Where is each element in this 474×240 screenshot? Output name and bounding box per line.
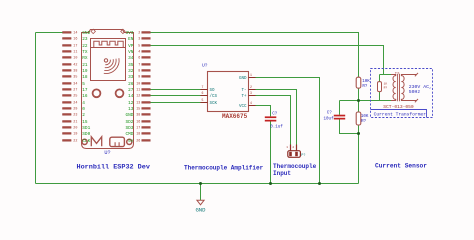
svg-text:18: 18 (136, 133, 140, 137)
svg-text:3V3: 3V3 (125, 31, 133, 36)
svg-text:42: 42 (73, 64, 77, 68)
wire burden resistor bottom (379, 92, 381, 101)
svg-text:11: 11 (136, 89, 140, 93)
svg-text:R?: R? (361, 120, 367, 124)
svg-text:14: 14 (128, 94, 134, 99)
wire ground bus (36, 183, 359, 185)
junction bypass cap on bus (269, 182, 272, 185)
svg-text:VN: VN (128, 50, 134, 55)
wire ESP32 GND pin to left rail (36, 32, 63, 34)
svg-text:5V: 5V (128, 139, 134, 144)
svg-text:12: 12 (136, 95, 140, 99)
svg-text:23: 23 (82, 37, 88, 42)
svg-text:6: 6 (202, 91, 204, 95)
ESP32 button left (93, 89, 101, 97)
svg-text:Input: Input (273, 170, 291, 177)
svg-text:GND: GND (195, 206, 206, 213)
svg-text:P?: P? (301, 154, 305, 158)
svg-text:TX: TX (82, 50, 88, 55)
ground symbol GND (197, 200, 204, 205)
thermocouple connector pin stubs (291, 145, 297, 152)
svg-text:10: 10 (136, 83, 140, 87)
svg-text:21: 21 (73, 121, 77, 125)
svg-text:GND: GND (239, 77, 247, 81)
svg-text:T-: T- (241, 89, 246, 93)
svg-text:34: 34 (128, 56, 134, 61)
wire R2 to bus (358, 125, 360, 184)
svg-text:24: 24 (73, 102, 77, 106)
ESP32 fiducial diamond right (121, 29, 125, 33)
svg-text:2: 2 (250, 85, 252, 89)
svg-text:5: 5 (82, 82, 85, 87)
svg-text:GND: GND (125, 113, 133, 118)
wire filter cap top lead (339, 101, 341, 115)
ESP32 left pin stubs (63, 32, 72, 142)
MAX6675 pin names (210, 77, 247, 109)
resistor R2 10K body (356, 112, 361, 125)
svg-text:0: 0 (82, 107, 85, 112)
wire 3V3 to divider top (151, 33, 359, 78)
wire GND symbol stub (200, 184, 202, 201)
svg-text:3: 3 (138, 38, 140, 42)
svg-text:12: 12 (128, 101, 134, 106)
svg-text:6: 6 (138, 57, 140, 61)
wire bypass cap to bus (270, 121, 272, 184)
svg-text:C?: C? (272, 112, 278, 116)
svg-text:2: 2 (138, 32, 140, 36)
wire R1 to R2 (358, 88, 360, 112)
svg-text:2: 2 (82, 113, 85, 118)
burden resistor body (378, 82, 382, 92)
svg-text:50Hz: 50Hz (409, 89, 421, 95)
svg-text:18: 18 (82, 75, 88, 80)
svg-text:GND: GND (82, 31, 90, 36)
wire divider mid node (340, 100, 392, 102)
svg-text:R?: R? (362, 85, 368, 89)
wire T+ to connector (256, 96, 291, 145)
svg-text:5: 5 (202, 98, 204, 102)
wire GPIO12 to SCK (151, 102, 201, 104)
svg-text:26: 26 (128, 82, 134, 87)
svg-text:T+: T+ (241, 95, 247, 99)
current sensor frame title compartment (371, 110, 427, 118)
svg-text:25: 25 (73, 95, 77, 99)
svg-text:13: 13 (136, 102, 140, 106)
transformer mains lead bottom (406, 99, 418, 102)
junction gnd stub on bus (199, 182, 202, 185)
svg-text:13: 13 (128, 107, 134, 112)
svg-text:14: 14 (73, 32, 77, 36)
wire VP to current transformer (151, 46, 384, 75)
svg-text:26: 26 (136, 140, 140, 144)
svg-text:15: 15 (136, 108, 140, 112)
MAX6675 left pin stubs (201, 90, 208, 103)
svg-text:SCK: SCK (210, 102, 218, 106)
svg-text:7: 7 (138, 64, 140, 68)
svg-text:16: 16 (82, 94, 88, 99)
ESP32 shield module box (91, 39, 126, 81)
ESP32 right pin names (125, 31, 133, 144)
ESP32 antenna meander trace (94, 41, 123, 47)
svg-text:Current Sensor: Current Sensor (375, 162, 427, 169)
svg-text:4: 4 (250, 101, 252, 105)
svg-text:10K: 10K (362, 80, 370, 84)
svg-text:16: 16 (73, 38, 77, 42)
svg-text:SD2: SD2 (125, 120, 133, 125)
svg-text:Thermocouple Amplifier: Thermocouple Amplifier (184, 164, 264, 171)
svg-text:23: 23 (73, 114, 77, 118)
ESP32 right pin numbers (136, 32, 140, 144)
svg-text:/CS: /CS (210, 94, 218, 99)
svg-text:8: 8 (138, 70, 140, 74)
svg-text:CLK: CLK (82, 139, 90, 144)
svg-text:34: 34 (73, 83, 77, 87)
svg-text:SCT-013-050: SCT-013-050 (383, 104, 414, 110)
transformer T1 core (398, 74, 400, 101)
svg-text:0.1uf: 0.1uf (270, 124, 283, 129)
svg-text:SO: SO (210, 89, 216, 93)
ESP32 bottom connector (110, 137, 125, 146)
ESP32 micro-USB connector M shape (91, 137, 101, 146)
svg-text:3: 3 (250, 91, 252, 95)
svg-text:27: 27 (128, 88, 134, 93)
svg-text:22: 22 (82, 44, 88, 49)
svg-text:16: 16 (136, 121, 140, 125)
ESP32 button right (116, 89, 124, 97)
svg-text:11: 11 (73, 51, 77, 55)
svg-text:SD0: SD0 (82, 132, 90, 137)
capacitor C2 10uf plates (334, 115, 345, 120)
svg-text:32: 32 (128, 69, 134, 74)
ESP32 mounting hole bottom-right (127, 139, 132, 144)
wire left rail down (35, 33, 37, 184)
resistor R1 10K body (356, 77, 361, 88)
svg-text:C?: C? (327, 111, 333, 115)
svg-text:10K: 10K (361, 115, 369, 119)
svg-text:4: 4 (138, 51, 140, 55)
MAX6675 left pin numbers (202, 85, 204, 102)
svg-text:EN: EN (128, 37, 134, 42)
current sensor dashed frame (371, 69, 433, 118)
svg-text:Hornbill ESP32 Dev: Hornbill ESP32 Dev (77, 164, 150, 172)
wire filter cap bottom lead (340, 119, 359, 133)
ESP32 left pin names (82, 31, 90, 144)
svg-text:19: 19 (73, 133, 77, 137)
MAX6675 U2 box (208, 72, 249, 112)
svg-text:1: 1 (250, 73, 252, 77)
svg-text:35: 35 (128, 63, 134, 68)
svg-text:10: 10 (73, 57, 77, 61)
ESP32 module U1 board outline (82, 30, 134, 149)
svg-text:4: 4 (82, 101, 85, 106)
svg-text:33: 33 (128, 75, 134, 80)
svg-text:SD3: SD3 (125, 126, 133, 131)
svg-text:27: 27 (73, 89, 77, 93)
ESP32 right pin stubs (142, 32, 151, 142)
transformer mains lead top (406, 73, 418, 76)
thermocouple connector pin numbers (286, 146, 294, 149)
burden resistor labels (384, 82, 388, 89)
svg-text:10uf: 10uf (324, 116, 335, 121)
svg-text:29: 29 (73, 108, 77, 112)
svg-text:21: 21 (82, 63, 88, 68)
thermocouple connector pads (289, 152, 298, 156)
svg-text:7: 7 (202, 85, 204, 89)
wire GPIO27 to SO (151, 89, 201, 91)
wire VCC to bypass cap (256, 106, 271, 117)
svg-text:230V AC,: 230V AC, (409, 84, 432, 90)
ESP32 fiducial diamond left (91, 29, 95, 33)
svg-text:15: 15 (82, 120, 88, 125)
svg-text:22: 22 (73, 140, 77, 144)
svg-text:RX: RX (82, 56, 88, 61)
wire MAX6675 GND to bus (256, 78, 320, 184)
MAX6675 right pin numbers (250, 73, 252, 105)
wire T- to connector (256, 90, 297, 145)
junction divider mid (357, 99, 360, 102)
wire GPIO14 to /CS (151, 95, 201, 97)
junction max GND on bus (318, 182, 321, 185)
MAX6675 right pin stubs (249, 78, 256, 106)
svg-text:Current Transformer: Current Transformer (374, 111, 427, 117)
capacitor C1 0.1uf plates (265, 116, 277, 121)
svg-text:5: 5 (138, 45, 140, 49)
svg-text:CMD: CMD (125, 132, 133, 137)
junction cap/R2 bottom (357, 132, 360, 135)
svg-text:35: 35 (73, 76, 77, 80)
svg-text:9: 9 (138, 76, 140, 80)
svg-text:20: 20 (73, 127, 77, 131)
thermocouple connector X1 body (288, 151, 301, 158)
wire burden resistor top (380, 75, 392, 82)
svg-text:U?: U? (104, 150, 110, 156)
ESP32 left pin numbers (73, 32, 77, 144)
svg-text:2: 2 (292, 146, 294, 149)
svg-text:SD1: SD1 (82, 126, 90, 131)
svg-text:VCC: VCC (239, 105, 247, 109)
svg-text:17: 17 (82, 88, 88, 93)
transformer T1 primary winding (391, 75, 396, 101)
svg-text:U?: U? (202, 63, 208, 69)
svg-text:17: 17 (136, 127, 140, 131)
svg-text:38: 38 (136, 114, 140, 118)
svg-text:17: 17 (73, 45, 77, 49)
svg-text:1K: 1K (384, 82, 388, 85)
svg-text:1: 1 (286, 146, 288, 149)
svg-text:MAX6675: MAX6675 (222, 113, 248, 120)
ESP32 mounting hole bottom-left (82, 139, 87, 144)
svg-text:19: 19 (82, 69, 88, 74)
svg-text:R?: R? (384, 86, 388, 89)
svg-text:38: 38 (73, 70, 77, 74)
transformer T1 secondary winding (401, 75, 406, 101)
svg-text:VP: VP (128, 44, 134, 49)
ESP32 wifi symbol arcs (104, 58, 119, 73)
